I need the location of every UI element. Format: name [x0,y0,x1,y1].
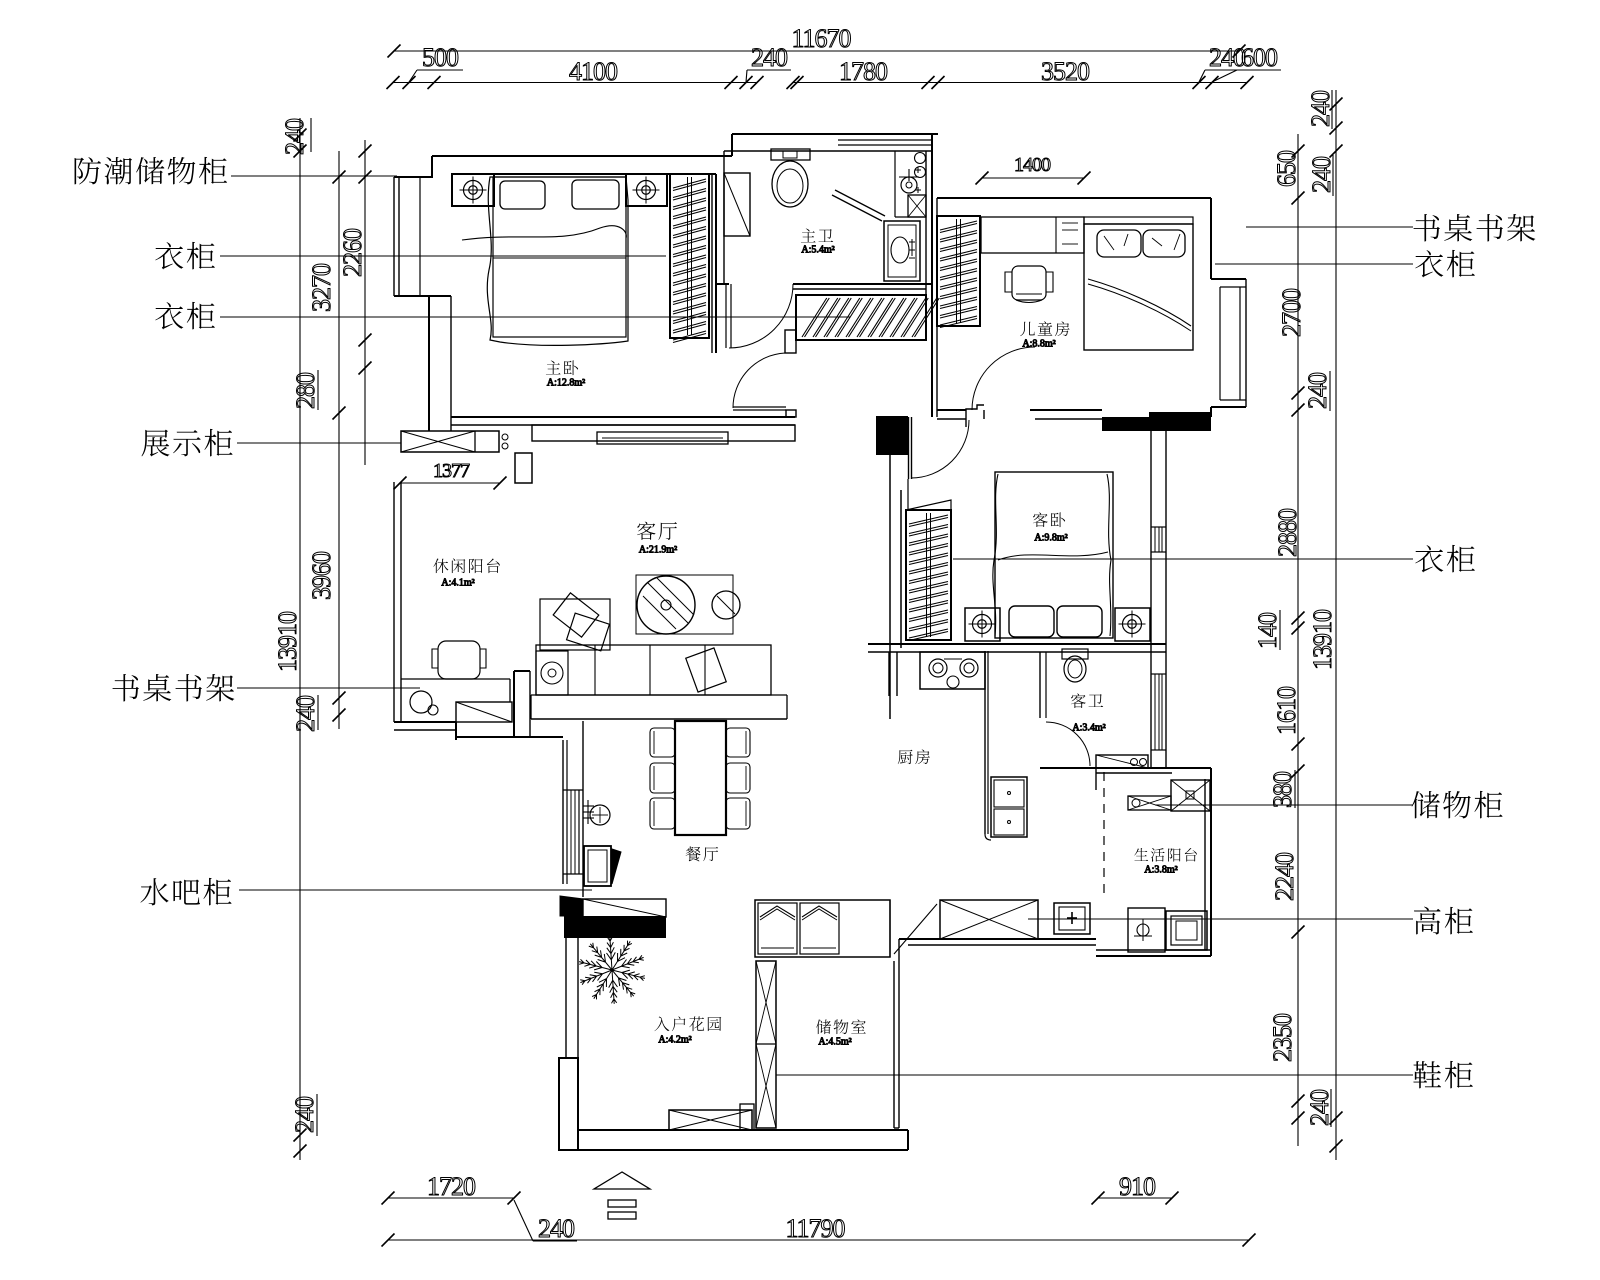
svg-text:650: 650 [1272,150,1301,187]
svg-text:1720: 1720 [427,1172,476,1201]
svg-text:11670: 11670 [791,24,851,53]
svg-text:380: 380 [1268,771,1297,808]
svg-text:3520: 3520 [1041,57,1090,86]
svg-text:3960: 3960 [307,551,336,600]
svg-text:A:5.4m²: A:5.4m² [801,244,834,255]
svg-text:1400: 1400 [1014,154,1051,176]
svg-text:240: 240 [1303,372,1332,409]
svg-text:13910: 13910 [1308,609,1337,670]
svg-text:2350: 2350 [1268,1013,1297,1062]
svg-text:240: 240 [751,43,788,72]
svg-text:240: 240 [290,1096,319,1133]
svg-text:A:21.9m²: A:21.9m² [639,544,677,555]
svg-text:1780: 1780 [839,57,888,86]
svg-text:140: 140 [1253,612,1282,649]
svg-text:240: 240 [1307,156,1336,193]
svg-text:A:4.5m²: A:4.5m² [818,1036,851,1047]
svg-text:2700: 2700 [1277,288,1306,337]
svg-text:500: 500 [422,43,459,72]
svg-text:1377: 1377 [433,460,470,482]
svg-text:13910: 13910 [273,611,302,672]
svg-text:A:9.8m²: A:9.8m² [1034,532,1067,543]
svg-text:240: 240 [1306,90,1335,127]
svg-text:A:8.8m²: A:8.8m² [1022,338,1055,349]
svg-text:4100: 4100 [569,57,618,86]
svg-text:2260: 2260 [338,228,367,277]
svg-text:280: 280 [291,372,320,409]
svg-text:3270: 3270 [307,263,336,312]
svg-text:11790: 11790 [785,1214,845,1243]
svg-text:240: 240 [280,118,309,155]
svg-text:240: 240 [538,1214,575,1243]
svg-text:600: 600 [1241,43,1278,72]
svg-text:240: 240 [1305,1089,1334,1126]
svg-text:A:4.2m²: A:4.2m² [658,1034,691,1045]
svg-text:2880: 2880 [1273,508,1302,557]
svg-text:A:3.4m²: A:3.4m² [1072,722,1105,733]
svg-text:A:12.8m²: A:12.8m² [547,377,585,388]
svg-text:1610: 1610 [1272,686,1301,735]
svg-text:910: 910 [1119,1172,1156,1201]
svg-text:240: 240 [291,695,320,732]
svg-text:A:3.8m²: A:3.8m² [1144,864,1177,875]
svg-text:2240: 2240 [1270,852,1299,901]
svg-text:A:4.1m²: A:4.1m² [441,577,474,588]
